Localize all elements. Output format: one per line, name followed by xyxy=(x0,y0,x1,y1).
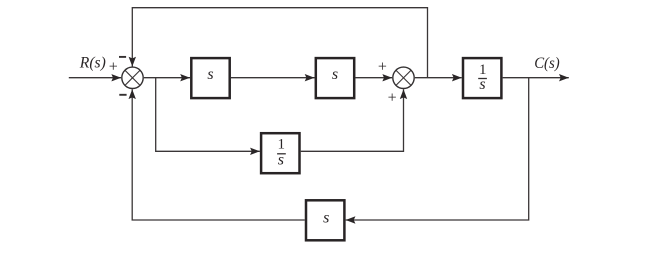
svg-text:s: s xyxy=(323,210,329,227)
svg-text:s: s xyxy=(332,66,338,83)
svg-text:1: 1 xyxy=(277,137,285,153)
svg-text:R(s): R(s) xyxy=(79,55,106,72)
svg-text:+: + xyxy=(109,59,118,76)
svg-text:+: + xyxy=(388,90,397,107)
svg-text:C(s): C(s) xyxy=(534,55,560,72)
svg-text:s: s xyxy=(207,66,213,83)
svg-text:+: + xyxy=(378,58,387,75)
